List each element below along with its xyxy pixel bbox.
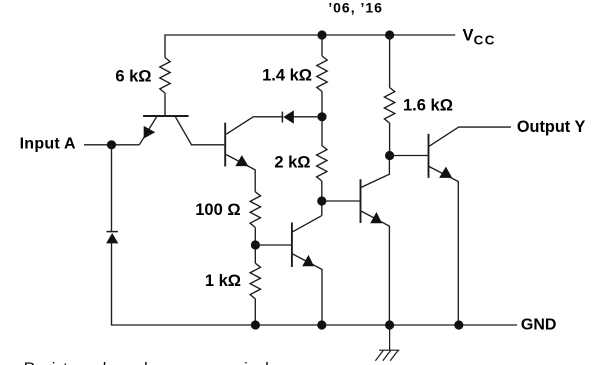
wire D2 to node [294, 116, 323, 118]
wire node to Q4 base [322, 200, 360, 202]
node Q5 base junction [385, 151, 394, 160]
transistor Q3 emitter [293, 254, 322, 325]
node phase junction [317, 196, 326, 205]
node VCC left junction [317, 30, 326, 39]
svg-text:’06, ’16: ’06, ’16 [328, 0, 383, 16]
wire R2 to R3 [321, 92, 323, 146]
wire VCC to R2 [321, 35, 323, 56]
transistor Q2 collector [226, 117, 282, 135]
transistor Q1 emitter arrow [144, 126, 156, 139]
wire Q2 emitter to R4 [254, 191, 256, 193]
node rail R5 junction [251, 320, 260, 329]
transistor Q1 base bar [143, 115, 189, 117]
node input junction [107, 140, 116, 149]
node rail Q3 junction [317, 320, 326, 329]
svg-text:Resistor values shown are nomi: Resistor values shown are nominal. [24, 361, 273, 365]
ground symbol [375, 325, 399, 361]
transistor Q5 emitter arrow [439, 167, 452, 178]
wire R6 to Q5 base node [389, 123, 391, 155]
transistor Q3 emitter arrow [302, 255, 314, 266]
transistor Q1 emitter [139, 117, 156, 145]
svg-text:Output Y: Output Y [517, 118, 586, 136]
transistor Q4 collector [361, 156, 389, 188]
transistor Q4 emitter [361, 211, 389, 325]
wire R4 to R5 [254, 227, 256, 263]
diode D1 cathode bar [107, 231, 118, 233]
svg-text:6 kΩ: 6 kΩ [115, 68, 151, 86]
transistor Q2 base bar [224, 123, 226, 167]
transistor Q4 base bar [360, 179, 362, 223]
transistor Q2 emitter [226, 155, 255, 192]
wire node to Q5 base [390, 155, 428, 157]
svg-text:1.6 kΩ: 1.6 kΩ [403, 97, 453, 115]
transistor Q4 emitter arrow [370, 212, 382, 223]
wire R3 bottom to Q3 collector [321, 181, 323, 216]
svg-text:GND: GND [521, 316, 557, 333]
resistor R2 1.4 kOhm [317, 56, 327, 92]
resistor R4 100 Ohm [250, 192, 260, 228]
wire input column with clamp diode [111, 145, 113, 232]
wire node to Q3 base [255, 244, 291, 246]
node VCC right junction [385, 30, 394, 39]
node rail Q5 junction [454, 320, 463, 329]
resistor R3 2 kOhm [317, 146, 327, 182]
transistor Q3 collector [293, 216, 322, 232]
wire VCC to R6 [389, 35, 391, 88]
transistor Q5 emitter [428, 166, 458, 325]
transistor Q5 base bar [428, 134, 430, 178]
wire R1 bottom to Q1 [164, 93, 166, 115]
resistor R5 1 kOhm [250, 263, 260, 299]
wire Input A [84, 144, 139, 146]
svg-text:2 kΩ: 2 kΩ [274, 153, 310, 171]
diode D2 cathode bar [281, 112, 283, 123]
label VCC [463, 26, 497, 47]
svg-text:1 kΩ: 1 kΩ [205, 272, 241, 290]
wire VCC rail [165, 35, 455, 58]
svg-text:CC: CC [474, 33, 496, 48]
svg-text:1.4 kΩ: 1.4 kΩ [262, 67, 312, 85]
node Q3 base junction [251, 240, 260, 249]
svg-text:Input A: Input A [20, 135, 76, 152]
node rail Q4 junction [385, 320, 394, 329]
transistor Q3 base bar [291, 223, 293, 268]
resistor R1 6 kOhm [160, 58, 170, 94]
transistor Q2 emitter arrow [235, 155, 248, 166]
diode D2 triangle [283, 110, 294, 123]
svg-text:V: V [463, 26, 474, 44]
transistor Q5 collector to output [429, 127, 511, 146]
diode D1 triangle [106, 233, 118, 243]
resistor R6 1.6 kOhm [384, 88, 394, 124]
wire R5 to ground rail [254, 299, 256, 325]
wire D1 to ground rail [112, 243, 518, 325]
transistor Q1 collector to Q2 base [175, 117, 224, 145]
svg-text:100 Ω: 100 Ω [195, 201, 240, 219]
node diode junction [317, 112, 326, 121]
